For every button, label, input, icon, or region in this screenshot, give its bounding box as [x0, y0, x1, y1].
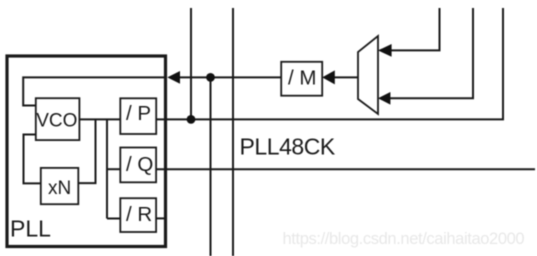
- svg-text:/ Q: / Q: [126, 153, 153, 176]
- svg-text:xN: xN: [48, 178, 71, 199]
- svg-text:/ R: / R: [126, 203, 152, 226]
- svg-text:PLL: PLL: [10, 216, 51, 242]
- svg-text:https://blog.csdn.net/caihaita: https://blog.csdn.net/caihaitao2000: [283, 230, 525, 248]
- svg-text:/ M: / M: [288, 66, 316, 89]
- svg-text:/ P: / P: [126, 102, 151, 125]
- svg-text:VCO: VCO: [36, 111, 77, 132]
- svg-text:PLL48CK: PLL48CK: [240, 134, 336, 160]
